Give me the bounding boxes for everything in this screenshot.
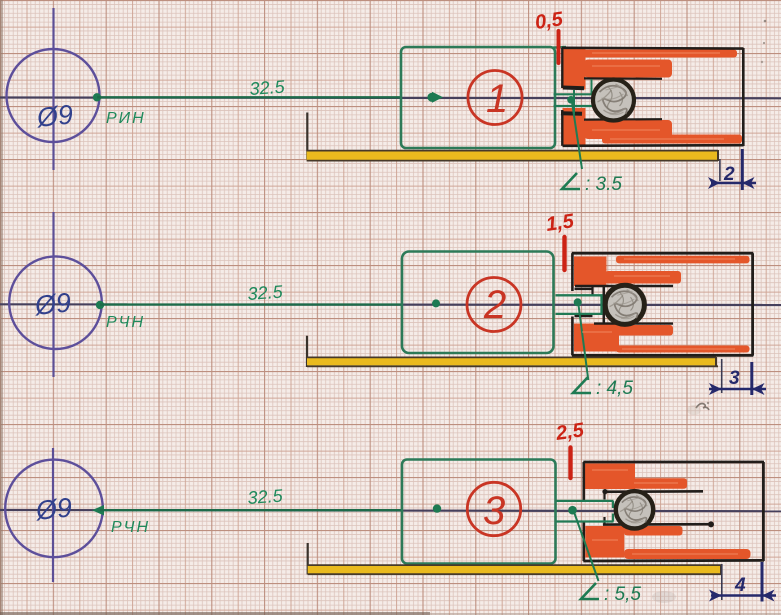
- crosshair vertical drawing 3: [52, 448, 54, 582]
- assembly 2 outline left edge upper: [571, 253, 574, 291]
- assembly 3 green fork bottom: [557, 520, 614, 522]
- paper stains: [652, 591, 676, 603]
- assembly 3 outline top edge: [583, 461, 764, 464]
- dim 2 extension left drawing 1: [719, 159, 721, 181]
- circle Ø9 drawing 3: [5, 460, 103, 558]
- assembly 2 orange lower-left block: [574, 324, 619, 352]
- assembly 3 outline left edge lower: [582, 522, 585, 561]
- assembly 1 orange upper-left block: [563, 49, 586, 90]
- svg-text:3: 3: [729, 368, 740, 389]
- svg-text:: 4,5: : 4,5: [596, 378, 633, 399]
- dim 4 extension left drawing 3: [721, 564, 723, 600]
- assembly 1 outline bottom edge: [563, 144, 744, 147]
- scan left edge: [0, 0, 3, 615]
- svg-text:2: 2: [723, 164, 735, 185]
- assembly 1 outline left edge lower: [561, 110, 563, 146]
- leader L 5,5 drawing 3: [574, 512, 599, 581]
- assembly 2 green fork right vertical: [600, 295, 602, 314]
- assembly 2 outline top edge: [572, 252, 754, 255]
- assembly 2 lower jaw line: [594, 322, 673, 324]
- scan bottom edge: [0, 612, 430, 615]
- assembly 2 lower jaw lip: [575, 315, 593, 317]
- assembly 1 orange lower finger: [584, 120, 672, 139]
- assembly 1 outline right edge: [742, 48, 745, 146]
- axis line drawing 1: [0, 96, 781, 99]
- assembly 3 orange lower-left block: [585, 526, 624, 558]
- assembly 1 ball: [593, 80, 634, 121]
- assembly 2 orange top strip: [616, 256, 750, 264]
- yellow bar drawing 1: [307, 151, 718, 160]
- green node dot drawing 1: [93, 93, 101, 101]
- assembly 1 green fork bottom: [554, 105, 593, 107]
- dim 4 arrows drawing 3: [709, 590, 722, 602]
- axis line drawing 2: [0, 303, 781, 306]
- assembly 2 ball seat vertical: [603, 286, 606, 324]
- assembly 3 upper jaw line: [603, 490, 703, 493]
- bracket vertical drawing 1: [306, 113, 308, 160]
- dim 2 line drawing 1: [711, 182, 756, 184]
- svg-text:РИН: РИН: [106, 110, 146, 127]
- dim 3 line drawing 2: [709, 388, 766, 390]
- circle Ø9 drawing 2: [9, 256, 102, 349]
- assembly 2 upper jaw lip: [575, 288, 593, 290]
- axis line drawing 3: [0, 510, 781, 511]
- assembly 1 green fork cross vertical: [573, 90, 575, 114]
- assembly 3 outline bottom edge: [583, 559, 764, 562]
- svg-text:: 5,5: : 5,5: [604, 584, 641, 605]
- green node dot drawing 2: [96, 301, 104, 309]
- red leader line drawing 1: [557, 31, 561, 63]
- crosshair vertical drawing 2: [52, 212, 54, 377]
- svg-text:32.5: 32.5: [247, 486, 284, 508]
- assembly 1 orange upper finger: [584, 60, 672, 78]
- leader L 4,5 drawing 2: [579, 305, 589, 380]
- svg-text:РЧН: РЧН: [111, 519, 150, 536]
- assembly 3 lower jaw line: [603, 523, 714, 526]
- svg-text:2: 2: [483, 283, 506, 327]
- assembly 1 green pivot dot: [567, 96, 575, 104]
- svg-text:: 3.5: : 3.5: [585, 174, 622, 195]
- svg-text:1,5: 1,5: [545, 210, 576, 236]
- assembly 3 green fork top: [557, 500, 614, 502]
- svg-text:4: 4: [734, 575, 746, 596]
- assembly 1 lower beak: [561, 111, 582, 116]
- label L 4,5 drawing 2: [573, 377, 591, 393]
- dim 3 extension left drawing 2: [721, 359, 723, 393]
- red position circle 2: [467, 278, 521, 332]
- green rectangle body drawing 1: [401, 47, 555, 148]
- dim 2 arrows drawing 1: [708, 177, 720, 189]
- paper specks: [764, 20, 767, 23]
- assembly 2 outline right edge: [751, 253, 754, 355]
- svg-text:32.5: 32.5: [247, 282, 284, 304]
- svg-text:0,5: 0,5: [534, 8, 565, 34]
- svg-text:Ø9: Ø9: [34, 99, 74, 133]
- assembly 3 orange bottom strip: [624, 549, 751, 559]
- leader L 3.5 drawing 1: [572, 102, 582, 169]
- green arrow dot inside rect drawing 2: [432, 299, 440, 307]
- assembly 3 green pivot dot: [568, 506, 577, 515]
- assembly 2 upper jaw step: [591, 286, 593, 295]
- dim 3 extension right drawing 2: [750, 362, 753, 395]
- assembly 2 orange upper-left block: [574, 257, 607, 287]
- dim 3 arrows drawing 2: [709, 383, 722, 395]
- assembly 3 orange lower finger: [624, 526, 683, 536]
- assembly 1 orange lower-left block: [563, 108, 586, 146]
- svg-text:3: 3: [483, 489, 505, 533]
- yellow bar drawing 3: [308, 566, 721, 574]
- assembly 1 outline top edge: [562, 46, 744, 49]
- assembly 3 ball: [616, 491, 653, 528]
- bracket vertical drawing 2: [306, 336, 308, 367]
- assembly 2 orange bottom strip: [616, 346, 750, 353]
- assembly 2 outline bottom edge: [572, 354, 753, 357]
- assembly 1 green fork upper vertical: [591, 79, 593, 94]
- green link line drawing 3: [100, 509, 402, 511]
- marker texture streaks: [582, 53, 738, 554]
- green arrow head drawing 3: [92, 505, 104, 516]
- assembly 3 orange upper finger: [628, 478, 687, 489]
- assembly 2 upper jaw line: [575, 285, 673, 287]
- green rectangle body drawing 3: [402, 460, 556, 564]
- svg-text:РЧН: РЧН: [106, 314, 145, 331]
- assembly 3 outline left edge upper: [582, 462, 585, 500]
- svg-text:32.5: 32.5: [249, 77, 286, 99]
- assembly 2 green fork top: [556, 294, 603, 296]
- green rectangle body drawing 2: [402, 252, 554, 354]
- circle Ø9 drawing 1: [7, 49, 100, 142]
- green dot inside rect drawing 3: [433, 504, 441, 512]
- assembly 1 upper jaw line: [584, 77, 662, 80]
- assembly 3 outline right edge: [762, 462, 765, 561]
- assembly 1 lower jaw line: [584, 118, 662, 121]
- assembly 3 upper jaw step: [603, 492, 605, 500]
- crosshair vertical drawing 1: [52, 8, 54, 170]
- green link line drawing 2: [100, 303, 402, 305]
- dim 4 extension right drawing 3: [761, 562, 764, 602]
- assembly 1 orange bottom strip: [602, 135, 742, 144]
- assembly 2 outline left edge lower: [571, 317, 574, 356]
- bracket vertical drawing 3: [307, 543, 309, 575]
- label L 3.5 drawing 1: [562, 173, 580, 189]
- green link line drawing 1: [97, 96, 402, 98]
- assembly 2 green pivot dot: [574, 298, 582, 306]
- assembly 3 orange upper-left block: [585, 464, 635, 490]
- assembly 2 ball: [605, 285, 644, 324]
- assembly 1 outline left edge upper: [561, 48, 563, 88]
- svg-text:1: 1: [486, 77, 508, 121]
- yellow bar drawing 2: [307, 358, 716, 366]
- red leader line drawing 2: [562, 237, 566, 270]
- red position circle 1: [468, 71, 522, 125]
- assembly 1 upper beak: [563, 86, 584, 91]
- assembly 2 green fork bottom: [556, 313, 603, 315]
- green arrow dot inside rect drawing 1: [427, 93, 436, 102]
- svg-text:Ø9: Ø9: [33, 492, 73, 526]
- red position circle 3: [467, 482, 520, 535]
- red leader line drawing 3: [568, 448, 572, 479]
- assembly 1 green fork top: [554, 93, 593, 95]
- assembly 3 green fork right verticals: [612, 501, 614, 508]
- dim 2 extension right drawing 1: [741, 149, 744, 190]
- assembly 2 orange upper finger: [605, 271, 681, 284]
- svg-text:2,5: 2,5: [554, 419, 586, 445]
- dim 4 line drawing 3: [711, 594, 776, 596]
- assembly 3 lower jaw step: [603, 517, 605, 525]
- assembly 1 orange top strip: [583, 50, 737, 58]
- label L 5,5 drawing 3: [581, 583, 599, 599]
- svg-text:Ø9: Ø9: [32, 287, 72, 321]
- assembly 2 orange lower finger: [605, 325, 673, 336]
